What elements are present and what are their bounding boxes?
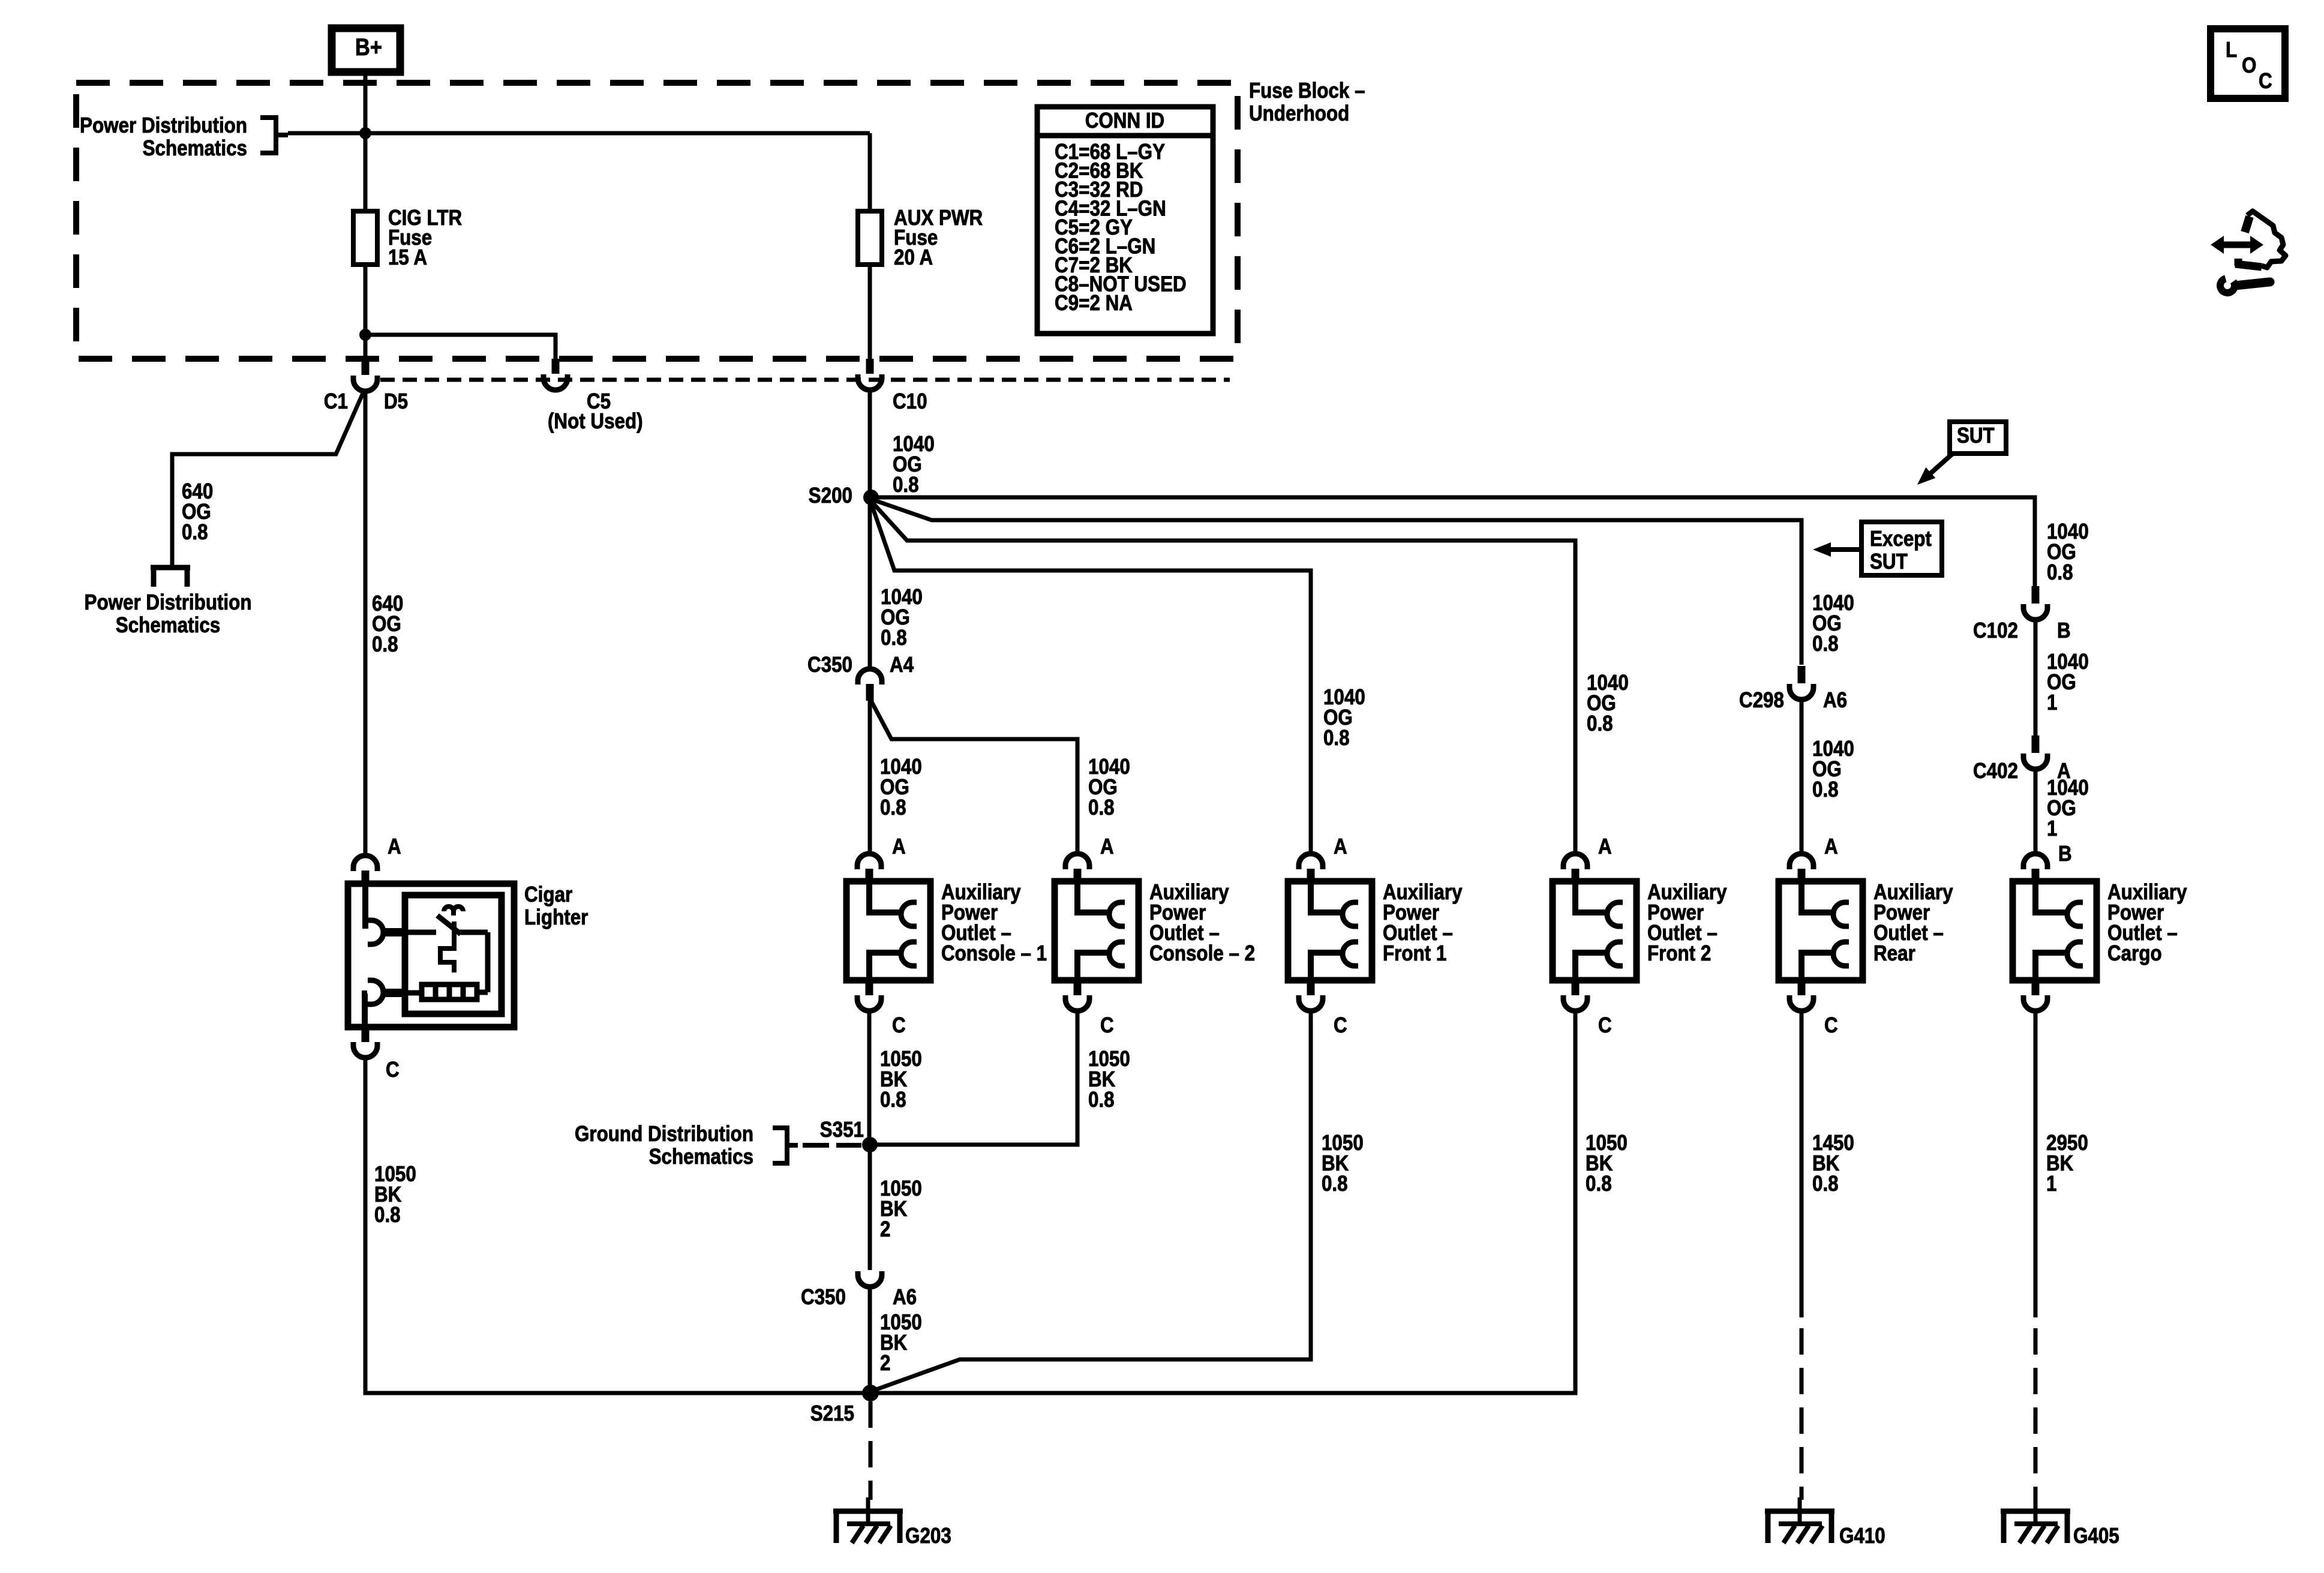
wire C350 A6 to S215: [868, 1287, 872, 1393]
svg-text:C: C: [386, 1058, 400, 1082]
wire S200 to cargo column (SUT): [871, 497, 2035, 587]
wire front 2 to S215: [870, 1011, 1575, 1393]
svg-text:Schematics: Schematics: [143, 136, 247, 161]
connector C298 A6: [1798, 666, 1806, 683]
connector C102 B: [2032, 586, 2040, 604]
junction node at CIG LTR feed: [359, 127, 371, 139]
svg-text:0.8: 0.8: [880, 1088, 906, 1112]
connector C350 A4: [858, 669, 882, 685]
svg-text:0.8: 0.8: [374, 1203, 401, 1227]
svg-text:(Not Used): (Not Used): [548, 409, 643, 434]
auxiliary power outlet console 1: [846, 881, 930, 980]
svg-text:A6: A6: [893, 1285, 917, 1310]
svg-text:C350: C350: [801, 1285, 846, 1310]
wire C350 A4 to console 1 outlet: [868, 698, 872, 854]
ground G405: [2034, 1497, 2038, 1524]
splice S351: [862, 1137, 878, 1152]
svg-text:S215: S215: [810, 1401, 854, 1426]
wire C298 to rear outlet: [1800, 699, 1804, 854]
svg-text:0.8: 0.8: [1812, 778, 1839, 802]
wire rear outlet to G410: [1800, 1011, 1804, 1317]
auxiliary power outlet front 1: [1288, 881, 1372, 980]
svg-text:C402: C402: [1973, 759, 2018, 784]
connector C350 A6: [858, 1271, 882, 1287]
fuse block underhood dashed box: [76, 83, 1238, 359]
svg-text:Except: Except: [1870, 527, 1932, 551]
svg-text:Power Distribution: Power Distribution: [80, 113, 247, 138]
wire S200 to front 2 column: [871, 501, 1575, 854]
wire S200 to C350 A4: [868, 504, 872, 667]
svg-text:Rear: Rear: [1873, 941, 1915, 966]
connector pin C of console 1: [866, 980, 873, 995]
svg-text:2: 2: [880, 1217, 890, 1242]
wire D5 to cigar lighter: [364, 391, 368, 854]
battery terminal B+: [332, 28, 400, 72]
junction node C5 branch: [359, 329, 371, 341]
svg-text:0.8: 0.8: [880, 795, 906, 820]
svg-text:B+: B+: [355, 34, 382, 61]
svg-text:Fuse Block –: Fuse Block –: [1249, 79, 1365, 103]
connector pin C of front 2: [1572, 980, 1580, 995]
connector pin C of cigar lighter: [362, 1027, 370, 1042]
svg-text:A: A: [892, 834, 906, 859]
svg-text:C: C: [1334, 1013, 1347, 1038]
wire S351 to C350 A6: [868, 1145, 872, 1270]
svg-text:C9=2 NA: C9=2 NA: [1055, 291, 1133, 316]
svg-text:C1: C1: [324, 389, 348, 414]
svg-text:G405: G405: [2073, 1524, 2119, 1548]
svg-text:C: C: [892, 1013, 906, 1038]
svg-text:L: L: [2226, 38, 2237, 62]
svg-text:Front 1: Front 1: [1383, 941, 1446, 966]
svg-text:0.8: 0.8: [2047, 560, 2073, 585]
svg-text:15 A: 15 A: [388, 245, 427, 270]
fuse AUX PWR 20A: [858, 211, 882, 265]
wrench: [2220, 278, 2235, 293]
wire AUX PWR fuse to C10: [868, 265, 872, 360]
wire bus to fuses: [288, 131, 870, 136]
ground G410: [1798, 1497, 1802, 1524]
svg-text:A6: A6: [1823, 688, 1847, 713]
svg-text:Power Distribution: Power Distribution: [85, 590, 252, 615]
svg-text:G410: G410: [1839, 1524, 1885, 1548]
svg-text:S200: S200: [809, 484, 852, 508]
svg-text:C102: C102: [1973, 619, 2018, 643]
svg-text:A4: A4: [890, 653, 914, 677]
svg-text:Console – 2: Console – 2: [1149, 941, 1255, 966]
wire B+ to CIG LTR fuse: [364, 72, 368, 211]
wire front 1 to S215: [875, 1011, 1311, 1390]
svg-text:Lighter: Lighter: [524, 905, 588, 930]
svg-text:C298: C298: [1739, 688, 1784, 713]
svg-text:0.8: 0.8: [893, 473, 919, 497]
wire S200 to rear column (except SUT): [871, 499, 1801, 665]
svg-text:Schematics: Schematics: [649, 1145, 753, 1169]
svg-text:1: 1: [2047, 691, 2057, 715]
connector pin C of front 1: [1307, 980, 1315, 995]
connector pin C of console 2: [1074, 980, 1082, 995]
splice S200: [863, 490, 879, 505]
connector face dotted line: [380, 378, 1230, 382]
Except SUT callout: [1861, 522, 1942, 575]
svg-text:SUT: SUT: [1957, 424, 1995, 448]
svg-text:Ground Distribution: Ground Distribution: [575, 1122, 753, 1146]
svg-text:0.8: 0.8: [1323, 726, 1350, 751]
svg-text:C350: C350: [807, 653, 852, 677]
svg-text:A: A: [388, 834, 401, 859]
svg-text:Underhood: Underhood: [1249, 101, 1349, 126]
svg-text:Front 2: Front 2: [1647, 941, 1711, 966]
ground G203: [866, 1497, 870, 1524]
wire C102 to C402: [2034, 619, 2038, 736]
cigar lighter: [348, 884, 514, 1027]
svg-text:D5: D5: [384, 389, 408, 414]
connector C5 (not used): [552, 359, 560, 374]
auxiliary power outlet rear: [1779, 881, 1863, 980]
wire C1 branch to power distribution: [172, 392, 364, 568]
svg-text:B: B: [2058, 842, 2072, 866]
svg-text:C: C: [1824, 1013, 1838, 1038]
svg-text:0.8: 0.8: [1812, 1172, 1839, 1196]
svg-text:C10: C10: [893, 389, 927, 414]
svg-text:0.8: 0.8: [182, 520, 208, 545]
connector pin A of front 1: [1299, 854, 1323, 869]
svg-text:20 A: 20 A: [894, 245, 933, 270]
connector pin A of rear: [1789, 854, 1813, 869]
splice S215: [862, 1385, 879, 1401]
wire S215 to G203 (dashed): [869, 1401, 873, 1500]
svg-text:2: 2: [880, 1351, 890, 1376]
svg-text:1: 1: [2046, 1172, 2056, 1196]
svg-text:A: A: [1598, 834, 1612, 859]
svg-text:0.8: 0.8: [881, 626, 907, 650]
svg-text:Schematics: Schematics: [116, 613, 220, 638]
connector C402 A: [2032, 736, 2040, 753]
wire cigar lighter to S215: [365, 1058, 870, 1393]
svg-text:0.8: 0.8: [1088, 1088, 1115, 1112]
SUT callout: [1950, 422, 2006, 454]
wire console 1 to S351: [867, 1011, 872, 1145]
svg-text:Console – 1: Console – 1: [941, 941, 1047, 966]
svg-text:0.8: 0.8: [1088, 795, 1115, 820]
auxiliary power outlet front 2: [1553, 881, 1637, 980]
svg-text:Cargo: Cargo: [2107, 941, 2162, 966]
connector pin of cargo: [2032, 980, 2040, 995]
svg-text:SUT: SUT: [1870, 550, 1908, 574]
svg-text:0.8: 0.8: [372, 632, 398, 657]
auxiliary power outlet cargo: [2013, 881, 2097, 980]
connector C1 / D5: [362, 359, 370, 375]
auxiliary power outlet console 2: [1055, 881, 1139, 980]
off-page fork to power distribution schematics: [151, 565, 190, 571]
svg-text:C: C: [2259, 69, 2272, 94]
wire S200 to front 1 column: [871, 503, 1311, 854]
CONN ID table: [1037, 107, 1213, 334]
wire C402 to cargo outlet: [2034, 769, 2038, 854]
svg-text:0.8: 0.8: [1587, 712, 1613, 736]
connector pin A of cigar lighter: [353, 855, 377, 871]
connector pin B of cargo: [2023, 854, 2047, 869]
connector C10: [866, 359, 874, 374]
connector pin A of front 2: [1563, 854, 1587, 869]
vehicle front direction icon: [2221, 242, 2253, 248]
connector pin A of console 2: [1065, 854, 1089, 869]
LOC legend box: [2211, 29, 2285, 98]
svg-text:A: A: [1824, 834, 1838, 859]
wire branch to console 2 outlet: [871, 701, 1077, 854]
svg-text:B: B: [2057, 619, 2071, 643]
svg-text:S351: S351: [820, 1118, 864, 1142]
wire console 2 to S351: [870, 1011, 1077, 1145]
svg-text:0.8: 0.8: [1812, 632, 1839, 656]
wire C10 to S200: [868, 390, 872, 497]
fuse CIG LTR 15A: [353, 211, 377, 265]
svg-text:0.8: 0.8: [1586, 1172, 1612, 1196]
connector pin A of console 1: [857, 854, 881, 869]
svg-text:C: C: [1598, 1013, 1612, 1038]
svg-text:0.8: 0.8: [1322, 1172, 1348, 1196]
wire cargo outlet to G405: [2034, 1011, 2038, 1317]
svg-text:1: 1: [2047, 816, 2057, 841]
svg-text:G203: G203: [905, 1524, 951, 1548]
svg-text:CONN ID: CONN ID: [1085, 109, 1164, 133]
wire branch to C5: [365, 335, 556, 360]
svg-text:A: A: [1334, 834, 1347, 859]
svg-text:A: A: [1100, 834, 1114, 859]
svg-text:Cigar: Cigar: [524, 882, 572, 907]
connector pin C of rear: [1798, 980, 1806, 995]
svg-text:O: O: [2242, 53, 2256, 78]
wire CIG LTR fuse to C1/D5: [364, 265, 368, 360]
svg-text:C: C: [1100, 1013, 1114, 1038]
